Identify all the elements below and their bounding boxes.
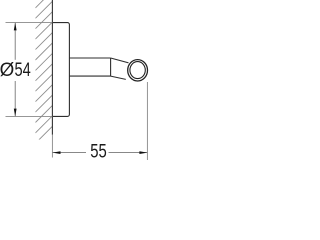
taper to ball [111,58,129,63]
ball outer [128,60,148,81]
wall face line [51,0,53,135]
arm [69,57,110,59]
arrow down [14,109,17,117]
arrow left [53,151,61,154]
dimension line 55 [53,152,87,154]
ball inner [130,62,145,79]
svg-text:54: 54 [15,58,32,81]
vertical dimension line Ø54 [14,23,16,60]
extension line bottom (Ø54) [6,115,53,117]
svg-text:Ø: Ø [0,60,14,82]
extension line right (55) [146,82,148,160]
arrow up [14,23,17,31]
mounting plate outline [52,23,69,117]
wall hatching [35,0,52,143]
arrow right [139,151,147,154]
wall face extension (gray, below wall) [51,135,53,158]
extension line top (Ø54) [6,22,53,24]
svg-text:55: 55 [90,139,107,162]
